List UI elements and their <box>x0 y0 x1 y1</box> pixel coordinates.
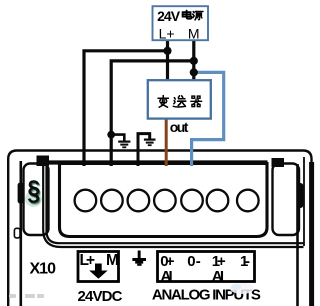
svg-text:AI: AI <box>161 268 173 285</box>
label 24V (bold) <box>157 8 181 24</box>
label M (supply) <box>106 252 119 269</box>
label 1- <box>240 253 250 270</box>
module face plate outline <box>43 164 303 247</box>
terminal screw 3 (earth) <box>128 190 150 212</box>
watermark bottom-left <box>9 294 44 298</box>
terminal block cover top edge <box>45 160 268 164</box>
wire to earth from M branch <box>111 135 124 141</box>
label AI (channel 1) <box>212 268 224 285</box>
terminal screw 6 (1+) <box>207 190 229 212</box>
terminal block <box>60 164 268 237</box>
node junction M branch <box>190 57 198 65</box>
right tower top tab <box>272 158 285 167</box>
earth ground symbol (module side) <box>144 140 156 146</box>
glyph 器 <box>191 96 202 107</box>
left clip lever bump <box>18 183 24 204</box>
wire L+ branch to module terminal 1 <box>84 51 168 166</box>
label 0- <box>187 253 201 270</box>
label L+ (box) <box>159 26 175 42</box>
svg-text:out: out <box>170 119 189 135</box>
label M (box) <box>188 26 200 42</box>
svg-text:24VDC: 24VDC <box>78 288 123 305</box>
left edge notch <box>14 228 20 238</box>
label ANALOG INPUTS <box>152 287 261 304</box>
module inner right edge <box>298 157 305 306</box>
svg-text:0 -: 0 - <box>187 253 201 270</box>
terminal screw 7 (1-) <box>237 190 259 212</box>
wire analog 0- (blue) <box>192 72 224 166</box>
module inner left edge <box>19 161 22 306</box>
glyph 源 <box>193 12 203 20</box>
label AI (channel 0) <box>161 268 173 285</box>
svg-text:L+: L+ <box>80 252 96 269</box>
green terminal-clip icon <box>25 175 42 208</box>
wire M branch to module terminal 2 <box>111 61 194 166</box>
node junction on L+ <box>163 47 171 55</box>
label 24VDC <box>78 288 123 305</box>
svg-text:AI: AI <box>212 268 224 285</box>
wire M supply to transmitter <box>192 41 195 81</box>
PLC module outer case <box>8 151 311 306</box>
wire L+ supply to transmitter <box>166 41 169 81</box>
glyph 电 <box>183 11 192 19</box>
glyph 变 <box>158 96 168 108</box>
right clip lever bump <box>297 183 304 208</box>
watermark smudge over INPUTS <box>230 283 254 294</box>
sensor supply label box L+ M <box>78 252 119 282</box>
supply arrow <box>89 264 108 279</box>
wire module earth terminal <box>138 134 150 166</box>
terminal screw 4 (0+) <box>154 190 176 212</box>
chassis ground marking <box>132 251 146 266</box>
label 1+ <box>212 253 226 270</box>
label X10 <box>30 261 57 278</box>
label L+ (supply) <box>80 252 96 269</box>
svg-text:X10: X10 <box>30 261 57 278</box>
right DIN-clip tower <box>273 164 300 236</box>
left DIN-clip tower <box>24 164 49 236</box>
node junction blue takeoff <box>190 68 198 76</box>
svg-text:1-: 1- <box>240 253 250 270</box>
label 0+ <box>160 253 174 270</box>
wire transmitter out (brown) <box>165 119 168 166</box>
glyph 送 <box>173 96 185 107</box>
svg-text:§: § <box>27 175 40 206</box>
left tower top tab <box>37 156 50 167</box>
svg-text:24V: 24V <box>157 8 181 24</box>
transmitter box <box>148 80 211 118</box>
svg-text:M: M <box>188 26 200 42</box>
terminal screw 2 (M) <box>101 190 123 212</box>
terminal screw 5 (0-) <box>181 190 203 212</box>
svg-text:M: M <box>106 252 119 269</box>
node junction M-earth <box>107 131 115 139</box>
analog inputs label box <box>158 252 255 282</box>
label out <box>170 119 189 135</box>
earth ground symbol (supply side) <box>118 142 130 148</box>
terminal screw 1 (L+) <box>75 190 97 212</box>
24V power supply box <box>153 6 209 40</box>
svg-text:L+: L+ <box>159 26 175 42</box>
